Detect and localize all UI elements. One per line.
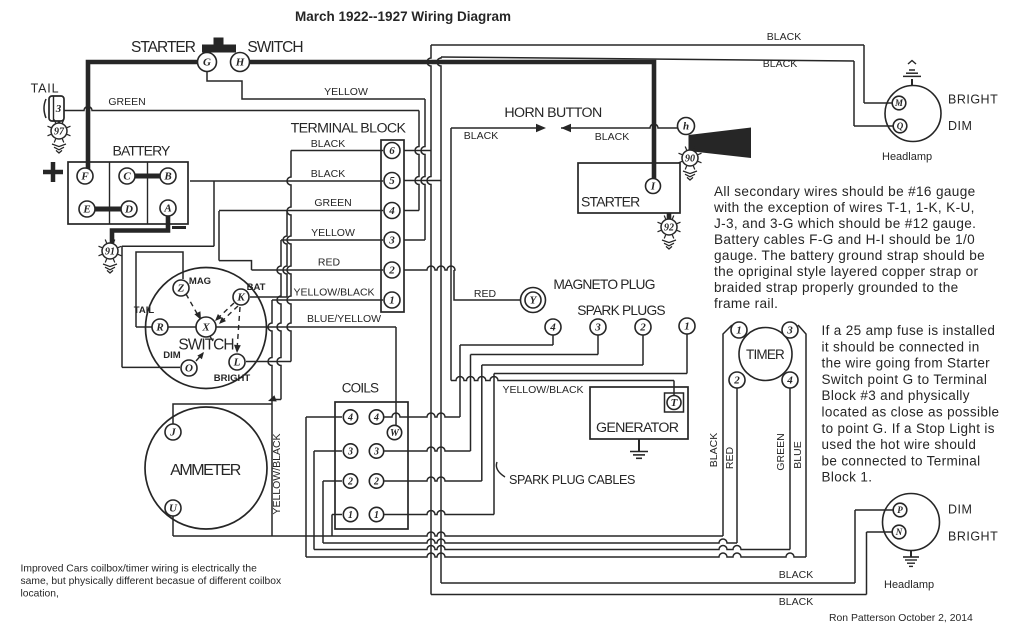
svg-text:BLACK: BLACK — [595, 131, 629, 143]
stub terminal 6 to black bus — [404, 150, 431, 152]
svg-text:GREEN: GREEN — [775, 433, 787, 470]
svg-text:GREEN: GREEN — [108, 96, 145, 108]
svg-text:BATTERY: BATTERY — [113, 143, 172, 159]
svg-text:gauge. The battery ground stra: gauge. The battery ground strap should b… — [714, 248, 985, 263]
wire: coil 2 to timer 2 — [323, 539, 737, 543]
svg-text:97: 97 — [54, 127, 65, 138]
ammeter terminals — [165, 424, 181, 440]
wire thick: battery A to ground 91 — [112, 212, 168, 243]
svg-text:D: D — [124, 204, 133, 216]
svg-text:H: H — [235, 57, 245, 69]
svg-text:K: K — [236, 292, 245, 304]
wire yellow to terminal 3 — [281, 239, 383, 241]
yellow drop to terminal 3 stub — [421, 99, 425, 240]
svg-text:to point G. If a Stop Light is: to point G. If a Stop Light is — [822, 421, 995, 436]
svg-text:U: U — [169, 503, 178, 515]
switch dashed K-X (pair) — [217, 303, 234, 319]
ground 92 — [677, 230, 681, 232]
svg-text:L: L — [233, 357, 241, 369]
ground 90 — [698, 161, 702, 163]
coil terminals — [343, 410, 357, 424]
wire: switch X blue/yellow drop to coil W — [395, 327, 397, 425]
svg-text:March 1922--1927 Wiring Diagra: March 1922--1927 Wiring Diagram — [295, 9, 511, 24]
svg-text:4: 4 — [786, 375, 793, 387]
svg-text:braided strap properly grounde: braided strap properly grounded to the — [714, 280, 959, 295]
node: black-6 drop to switch L — [287, 151, 291, 362]
wire blue/yellow: switch X to coils W — [136, 326, 396, 328]
svg-text:be connected to Terminal: be connected to Terminal — [822, 453, 981, 468]
wire green: tail lamp to right-side drop — [64, 107, 419, 111]
generator terminal T — [667, 396, 681, 410]
wire red feed: battery drop to terminal 2 wire — [219, 261, 252, 270]
svg-text:BLACK: BLACK — [779, 596, 813, 608]
svg-text:DIM: DIM — [948, 119, 972, 133]
svg-text:used the hot wire should: used the hot wire should — [822, 437, 977, 452]
svg-text:Block #3 and physically: Block #3 and physically — [822, 388, 970, 403]
stub terminal 3 to yellow drop — [404, 239, 425, 241]
svg-text:located as close as possible: located as close as possible — [822, 405, 1000, 420]
headlamp bottom ground — [910, 551, 912, 558]
svg-text:h: h — [683, 121, 689, 133]
svg-text:M: M — [894, 98, 904, 108]
stub terminal 4 to green drop — [404, 210, 419, 212]
node: y/b-1 drop to ammeter right edge — [268, 300, 272, 404]
headlamp top ground — [911, 79, 913, 86]
spark plug 4 — [545, 319, 561, 335]
svg-text:SWITCH: SWITCH — [247, 39, 302, 56]
svg-text:YELLOW: YELLOW — [311, 227, 355, 239]
switch dashed Z-X — [186, 294, 199, 317]
svg-text:2: 2 — [347, 476, 353, 487]
svg-text:BLACK: BLACK — [311, 138, 345, 150]
svg-text:4: 4 — [373, 412, 379, 423]
svg-text:YELLOW/BLACK: YELLOW/BLACK — [293, 287, 374, 299]
spark plug cables leader squiggle — [496, 462, 505, 477]
svg-text:HORN BUTTON: HORN BUTTON — [504, 105, 602, 121]
svg-text:the opriginal style layered co: the opriginal style layered copper strap… — [714, 264, 979, 279]
ammeter loop wires — [173, 404, 272, 424]
terminal block 5 — [384, 173, 400, 189]
svg-text:3: 3 — [55, 103, 62, 115]
svg-text:TIMER: TIMER — [746, 347, 785, 362]
switch arrow to X from label — [209, 335, 213, 341]
wire: coil 4 to timer 3 — [306, 553, 806, 557]
wire: switch R to switch Z bridge — [136, 252, 183, 327]
svg-text:J: J — [169, 427, 176, 439]
wire: coil 3 to timer 4 — [314, 546, 790, 550]
svg-text:BAT: BAT — [247, 282, 266, 293]
wire: battery feed down to switch O dim — [121, 246, 123, 367]
svg-text:J-3, and 3-G which should be: J-3, and 3-G which should be #12 gauge. — [714, 216, 976, 231]
terminal block 4 — [384, 203, 400, 219]
svg-text:5: 5 — [389, 175, 395, 187]
terminal block 2 — [384, 262, 400, 278]
svg-text:Q: Q — [897, 121, 904, 131]
spark plug 1 — [679, 318, 695, 334]
svg-text:3: 3 — [388, 235, 395, 247]
wire thick: battery F up to starter switch G — [88, 62, 199, 169]
svg-text:2: 2 — [733, 375, 740, 387]
spark plug 3 — [590, 319, 606, 335]
svg-text:GREEN: GREEN — [314, 197, 351, 209]
starter switch symbol — [202, 45, 236, 53]
svg-text:If a 25 amp fuse is installed: If a 25 amp fuse is installed — [822, 323, 996, 338]
horn terminal h — [678, 118, 695, 135]
battery minus tick — [172, 226, 186, 229]
svg-text:BLACK: BLACK — [767, 31, 801, 43]
generator box — [590, 387, 688, 439]
svg-text:W: W — [390, 428, 400, 439]
node: yellow-3 drop to ammeter arrow — [277, 240, 281, 400]
svg-text:4: 4 — [347, 412, 353, 423]
wire red: terminal 2 to magneto plug Y — [404, 266, 455, 270]
svg-text:BLACK: BLACK — [763, 58, 797, 70]
ground 91 — [118, 254, 122, 256]
svg-text:Improved Cars coilbox/timer wi: Improved Cars coilbox/timer wiring is el… — [21, 563, 258, 574]
starter box — [578, 163, 680, 213]
svg-text:YELLOW: YELLOW — [324, 86, 368, 98]
svg-text:TERMINAL BLOCK: TERMINAL BLOCK — [291, 121, 407, 137]
svg-text:RED: RED — [474, 288, 497, 300]
switch arrow from O — [196, 353, 203, 361]
svg-text:All secondary wires should be: All secondary wires should be #16 gauge — [714, 184, 976, 199]
svg-text:Ron Patterson October 2, 2014: Ron Patterson October 2, 2014 — [829, 613, 973, 624]
svg-text:Headlamp: Headlamp — [884, 579, 934, 591]
svg-text:90: 90 — [685, 154, 695, 165]
svg-text:3: 3 — [594, 322, 601, 334]
coil terminal W — [387, 425, 401, 439]
svg-text:91: 91 — [105, 247, 115, 258]
svg-text:1: 1 — [684, 321, 690, 333]
timer wires — [723, 325, 732, 536]
terminal H — [231, 53, 250, 72]
headlamp bottom terminals — [893, 503, 907, 517]
wire black to terminal 5 (from battery B) — [190, 180, 383, 182]
horn cone — [689, 128, 752, 159]
svg-text:3: 3 — [786, 325, 793, 337]
switch terminals — [173, 280, 189, 296]
svg-text:Block 1.: Block 1. — [822, 470, 873, 485]
svg-text:BLACK: BLACK — [311, 168, 345, 180]
black bus 2: second top line down to bottom headlamp P — [441, 57, 854, 61]
svg-text:2: 2 — [388, 265, 395, 277]
svg-text:1: 1 — [389, 295, 395, 307]
horn button wire right — [561, 124, 571, 132]
svg-text:GENERATOR: GENERATOR — [596, 420, 679, 436]
battery strap C-B — [133, 174, 162, 179]
svg-text:BRIGHT: BRIGHT — [948, 93, 998, 107]
wire green to terminal 4 — [219, 210, 383, 212]
switch dashed K-L — [237, 307, 240, 350]
svg-text:DIM: DIM — [948, 503, 972, 517]
svg-text:COILS: COILS — [342, 381, 379, 396]
ground 97 — [58, 121, 60, 124]
wire black to terminal 6 — [291, 150, 383, 152]
svg-text:6: 6 — [389, 145, 395, 157]
svg-text:4: 4 — [388, 205, 395, 217]
svg-text:1: 1 — [348, 510, 353, 521]
svg-text:MAG: MAG — [189, 276, 211, 287]
horn drop to generator feed — [450, 128, 452, 381]
battery terminals — [77, 168, 93, 184]
wire yellow: switch G down/over — [207, 71, 425, 99]
terminal G — [198, 53, 217, 72]
coils left wires — [306, 416, 342, 418]
svg-text:C: C — [123, 171, 131, 183]
battery box — [68, 162, 188, 224]
svg-text:STARTER: STARTER — [131, 39, 196, 56]
wire thick: starter switch H to horn/starter drop — [249, 62, 655, 180]
magneto plug Y — [521, 288, 546, 313]
svg-text:RED: RED — [724, 446, 736, 469]
svg-text:3: 3 — [347, 446, 353, 457]
node: green drop to terminal 4 stub — [415, 111, 419, 211]
svg-text:same, but physically different: same, but physically different becasue o… — [21, 576, 282, 587]
tail lamp — [49, 96, 64, 121]
svg-text:E: E — [82, 204, 90, 216]
svg-text:O: O — [185, 363, 193, 375]
spark plug 2 — [635, 319, 651, 335]
svg-text:Headlamp: Headlamp — [882, 151, 932, 163]
svg-text:Battery cables F-G and H-I sho: Battery cables F-G and H-I should be 1/0 — [714, 232, 975, 247]
svg-text:1: 1 — [736, 325, 742, 337]
svg-text:1: 1 — [374, 510, 379, 521]
svg-text:P: P — [897, 505, 903, 515]
spark plug wires — [552, 335, 554, 345]
generator T terminal box — [665, 393, 684, 412]
svg-text:AMMETER: AMMETER — [170, 462, 240, 479]
coils right wires — [385, 413, 461, 417]
terminal block 3 — [384, 232, 400, 248]
plus sign — [43, 162, 63, 182]
svg-text:BLACK: BLACK — [708, 433, 720, 467]
svg-text:YELLOW/BLACK: YELLOW/BLACK — [271, 433, 283, 514]
svg-text:2: 2 — [639, 322, 646, 334]
svg-text:it should be connected in: it should be connected in — [822, 339, 980, 354]
terminal block 6 — [384, 143, 400, 159]
svg-text:frame rail.: frame rail. — [714, 296, 778, 311]
timer body — [739, 328, 792, 381]
battery strap E-D — [94, 207, 122, 212]
wire yellow/black to terminal 1 — [272, 299, 383, 301]
svg-text:R: R — [155, 322, 163, 334]
stub terminal 5 to black bus 2 — [404, 180, 441, 182]
svg-text:BLACK: BLACK — [779, 569, 813, 581]
svg-text:location,: location, — [21, 588, 59, 599]
headlamp top terminals — [892, 96, 906, 110]
svg-text:SPARK PLUGS: SPARK PLUGS — [577, 303, 665, 318]
terminal block 1 — [384, 292, 400, 308]
svg-text:TAIL: TAIL — [134, 305, 155, 316]
svg-text:Z: Z — [177, 283, 185, 295]
headlamp top body — [885, 86, 941, 142]
svg-text:SPARK PLUG CABLES: SPARK PLUG CABLES — [509, 473, 635, 487]
timer terminals — [731, 322, 747, 338]
svg-text:the wire going from Starter: the wire going from Starter — [822, 356, 991, 371]
svg-text:A: A — [163, 203, 171, 215]
light switch (round) body — [146, 268, 267, 389]
svg-text:SWITCH: SWITCH — [178, 337, 233, 354]
svg-text:TAIL: TAIL — [31, 82, 60, 96]
svg-text:BRIGHT: BRIGHT — [948, 530, 998, 544]
battery junction wires — [213, 181, 215, 246]
svg-text:3: 3 — [373, 446, 379, 457]
svg-text:BRIGHT: BRIGHT — [214, 373, 251, 384]
svg-text:BLACK: BLACK — [464, 130, 498, 142]
svg-text:92: 92 — [664, 223, 674, 234]
svg-text:RED: RED — [318, 257, 341, 269]
headlamp bottom body — [883, 494, 940, 551]
svg-text:N: N — [895, 527, 903, 537]
svg-text:2: 2 — [373, 476, 379, 487]
svg-text:G: G — [203, 57, 211, 69]
terminal block box — [381, 140, 404, 312]
svg-text:BLUE/YELLOW: BLUE/YELLOW — [307, 313, 381, 325]
coils box — [335, 402, 408, 529]
svg-text:I: I — [650, 181, 656, 193]
svg-text:Switch point G to Terminal: Switch point G to Terminal — [822, 372, 988, 387]
starter ground stub — [667, 213, 672, 219]
black bus 1: top headlamp line down to bottom headlamp N — [431, 44, 864, 46]
wire: ammeter bottom / coil 1 to timer 1 — [173, 532, 723, 536]
svg-text:4: 4 — [549, 322, 556, 334]
svg-text:MAGNETO PLUG: MAGNETO PLUG — [553, 277, 654, 292]
ammeter body — [145, 407, 267, 529]
svg-text:BLUE: BLUE — [792, 441, 804, 468]
svg-text:F: F — [80, 171, 89, 183]
generator ground — [638, 439, 640, 452]
node: green-4 drop to switch K — [283, 211, 287, 297]
svg-text:with the exception of wires T-: with the exception of wires T-1, 1-K, K-… — [713, 200, 975, 215]
svg-text:X: X — [201, 322, 210, 334]
horn button wire left — [451, 127, 538, 129]
svg-text:B: B — [163, 171, 171, 183]
svg-text:YELLOW/BLACK: YELLOW/BLACK — [502, 384, 583, 396]
svg-text:STARTER: STARTER — [581, 194, 640, 210]
starter terminal I — [646, 179, 661, 194]
generator feed wire yellow/black — [451, 377, 674, 381]
